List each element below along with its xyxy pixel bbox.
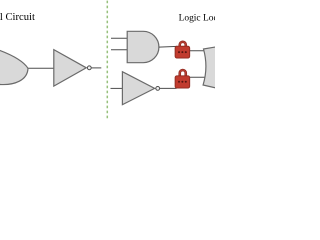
boundary dashed divider xyxy=(106,1,108,120)
wire key lock K2 to OR G3 input xyxy=(189,76,207,78)
wire OR G1 output to inverter U1 input xyxy=(25,67,54,69)
label Logic Locked Circuit (clipped at right edge) xyxy=(179,13,261,23)
key lock K2 body xyxy=(175,76,190,88)
inverter U1 xyxy=(54,50,87,87)
key lock K2 dots xyxy=(178,81,180,83)
wire inverter U2 to key lock K2 xyxy=(160,87,177,89)
wire inverter U2 input xyxy=(111,87,124,89)
or-gate G1 (clipped at left edge) xyxy=(0,50,28,84)
wire key lock K1 to OR G3 input xyxy=(189,50,207,52)
key lock K1 dots xyxy=(178,51,180,53)
wire AND output to key lock K1 xyxy=(159,45,177,48)
svg-text:Original Circuit: Original Circuit xyxy=(0,12,35,23)
inverter U2 bubble xyxy=(156,87,160,91)
inverter U1 bubble xyxy=(87,66,91,70)
or-gate G3 (clipped at right edge) xyxy=(203,47,216,88)
wire AND input A xyxy=(111,37,128,39)
key lock K1 body xyxy=(175,46,190,58)
and-gate G2 xyxy=(127,31,159,62)
key lock K2 shackle xyxy=(180,70,186,77)
wire AND input B xyxy=(111,49,128,51)
inverter U1 output wire xyxy=(91,67,101,69)
svg-text:Logic Locked Circuit: Logic Locked Circuit xyxy=(179,13,215,23)
key lock K1 shackle xyxy=(180,42,186,48)
label Original Circuit (clipped at left edge) xyxy=(0,12,35,23)
inverter U2 xyxy=(122,72,154,105)
